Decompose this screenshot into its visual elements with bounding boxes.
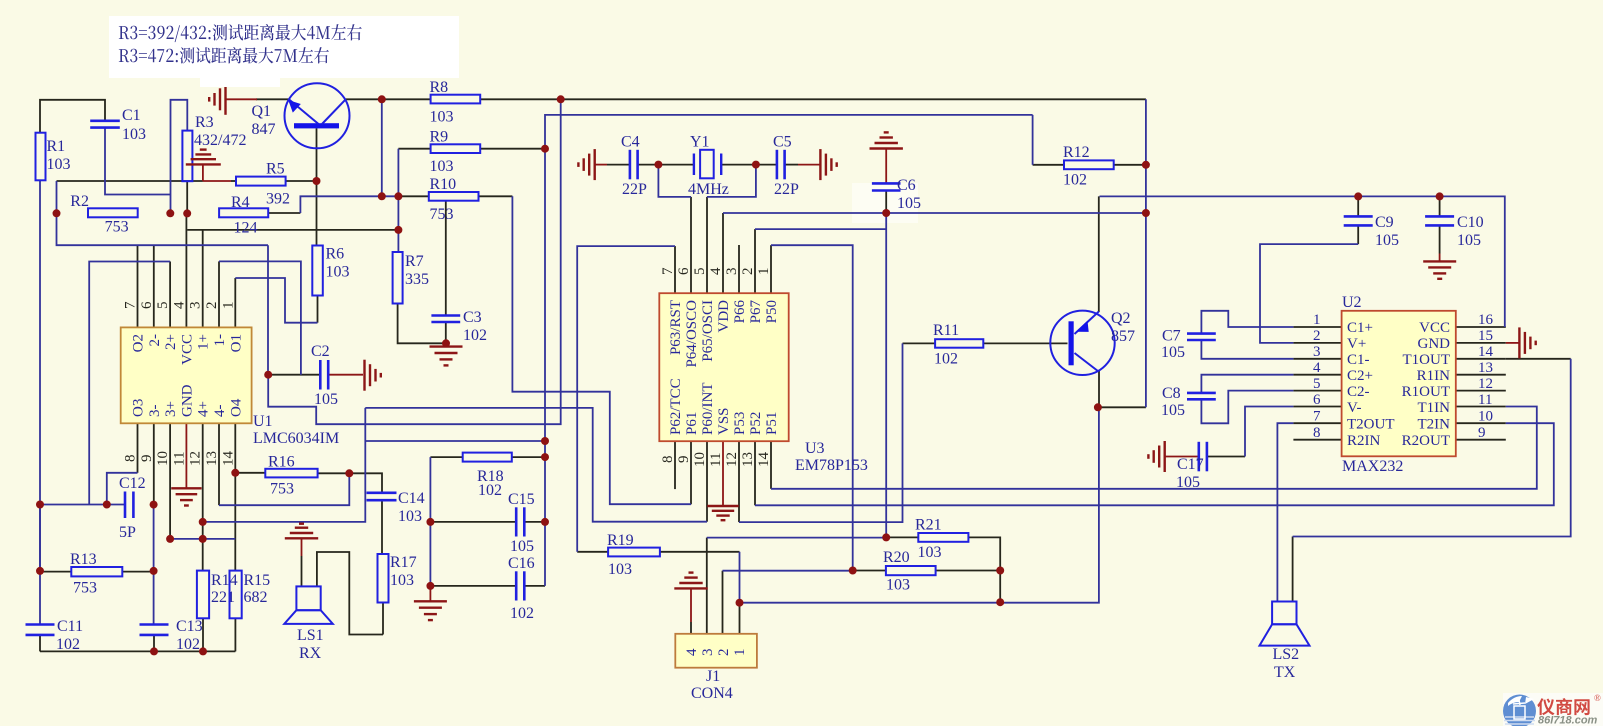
wire R11 left lead	[903, 342, 936, 344]
svg-text:C14: C14	[398, 490, 425, 507]
connector J1 CON4	[675, 634, 757, 702]
wire J1 pin4 stub	[690, 622, 692, 636]
annotation line 1	[119, 24, 362, 42]
svg-text:C16: C16	[508, 555, 535, 572]
svg-text:335: 335	[405, 271, 429, 288]
wire y537.6 rail	[707, 537, 886, 539]
svg-text:C17: C17	[1177, 456, 1204, 473]
svg-text:R15: R15	[244, 572, 271, 589]
svg-text:105: 105	[510, 538, 534, 555]
wire y196 riser to top rail	[381, 99, 383, 196]
wire R4 to y196 rail	[300, 196, 398, 213]
node y229 x398	[394, 226, 402, 234]
wire R19 right lead	[660, 551, 740, 553]
speaker LS2	[1260, 602, 1310, 682]
svg-text:R4: R4	[231, 194, 250, 211]
node Q2 emitter	[1094, 403, 1102, 411]
transistor Q1	[252, 83, 350, 148]
wire red gnd stem R3	[202, 164, 204, 181]
svg-text:8: 8	[1313, 425, 1321, 441]
node R13 left	[36, 567, 44, 575]
svg-text:10: 10	[155, 451, 171, 466]
svg-text:R16: R16	[268, 454, 295, 471]
wire VDD bus y213	[723, 212, 1146, 214]
svg-text:753: 753	[73, 580, 97, 597]
svg-text:753: 753	[430, 206, 454, 223]
wire top rail Q1 to R8	[256, 98, 289, 100]
wire C8 to pin4	[1201, 375, 1293, 393]
svg-text:P53: P53	[732, 412, 748, 435]
svg-text:4: 4	[708, 267, 724, 275]
svg-text:12: 12	[724, 452, 740, 467]
svg-text:392: 392	[266, 191, 290, 208]
svg-text:P65/OSCI: P65/OSCI	[700, 300, 716, 362]
wire C14 bottom to R17	[381, 501, 383, 554]
svg-text:9: 9	[676, 456, 692, 464]
svg-text:VCC: VCC	[179, 334, 195, 365]
wire R19 left lead	[577, 551, 608, 553]
wire bottom bus y651	[40, 650, 235, 652]
svg-text:R7: R7	[405, 253, 424, 270]
wire R10 right lead	[479, 195, 513, 197]
svg-text:R8: R8	[430, 79, 449, 96]
svg-text:5: 5	[155, 302, 171, 310]
wire U1 pin stubs bottom	[137, 423, 139, 473]
svg-text:R9: R9	[430, 129, 449, 146]
resistor R17	[378, 554, 417, 603]
wire R10 to U3 pin9	[512, 196, 691, 504]
svg-text:R19: R19	[607, 532, 634, 549]
wire LS1 right loop	[317, 552, 383, 635]
svg-text:3: 3	[700, 649, 716, 657]
capacitor C1	[90, 107, 146, 143]
svg-text:105: 105	[1161, 402, 1185, 419]
node R12 right	[1142, 161, 1150, 169]
svg-text:5P: 5P	[119, 524, 136, 541]
wire J1 pin2 stub	[722, 571, 724, 637]
svg-text:753: 753	[270, 481, 294, 498]
resistor R3	[182, 114, 246, 181]
svg-text:P62/TCC: P62/TCC	[668, 378, 684, 435]
svg-text:U1: U1	[253, 413, 273, 430]
svg-text:6: 6	[676, 267, 692, 275]
node R14 bottom	[199, 647, 207, 655]
wire R1 long column	[39, 180, 41, 504]
wire U1 pin1 O1 to R6	[235, 278, 317, 323]
svg-text:P66: P66	[732, 300, 748, 324]
svg-text:R2: R2	[70, 193, 89, 210]
wire red R18 gnd stem	[429, 586, 431, 601]
wire C10 leads	[1439, 196, 1441, 216]
wire C9 to V+	[1260, 244, 1358, 343]
resistor R1	[36, 133, 71, 181]
svg-text:T2IN: T2IN	[1418, 417, 1451, 433]
node C3 ground	[442, 339, 450, 347]
svg-text:T1OUT: T1OUT	[1403, 352, 1451, 368]
GROUNDS	[171, 84, 1536, 620]
wire R18 right lead	[512, 456, 545, 458]
node top rail x560	[557, 95, 565, 103]
resistor R21	[915, 517, 968, 562]
wire red U2 pin15 gnd	[1506, 342, 1520, 344]
capacitor C6	[872, 177, 921, 212]
resistor R7	[393, 252, 429, 304]
svg-text:103: 103	[918, 544, 942, 561]
node R13 right	[150, 567, 158, 575]
svg-text:5: 5	[692, 268, 708, 276]
wire R15 bottom lead	[234, 618, 236, 651]
node R4 left	[183, 209, 191, 217]
ground below R3	[186, 150, 221, 165]
node R9 right	[541, 145, 549, 153]
resistor R16	[265, 454, 317, 498]
svg-text:4+: 4+	[196, 401, 212, 417]
svg-text:V+: V+	[1347, 336, 1366, 352]
svg-text:16: 16	[1478, 312, 1494, 328]
svg-text:Y1: Y1	[690, 134, 710, 151]
svg-text:4: 4	[171, 301, 187, 309]
svg-text:®: ®	[1594, 693, 1601, 703]
node VDD y537	[882, 533, 890, 541]
svg-text:R3: R3	[195, 114, 214, 131]
wire crystal rail C4-Y1	[607, 164, 629, 166]
svg-text:R10: R10	[430, 176, 457, 193]
resistor R20	[883, 549, 936, 594]
svg-text:105: 105	[314, 391, 338, 408]
svg-text:P64/OSCO: P64/OSCO	[684, 300, 700, 368]
svg-text:TX: TX	[1274, 664, 1296, 681]
wire R14 bottom lead	[202, 618, 204, 651]
wire LS2 right lead	[1292, 537, 1294, 602]
capacitor C7	[1161, 328, 1216, 362]
wire V- to C17	[1245, 407, 1293, 457]
svg-text:MAX232: MAX232	[1342, 458, 1403, 475]
wire x545 spine	[545, 115, 1033, 586]
svg-text:C9: C9	[1375, 214, 1394, 231]
svg-text:R1: R1	[47, 138, 66, 155]
svg-text:P51: P51	[764, 412, 780, 435]
svg-text:2+: 2+	[163, 334, 179, 350]
svg-text:102: 102	[934, 351, 958, 368]
svg-text:R12: R12	[1063, 144, 1090, 161]
svg-text:3: 3	[1313, 344, 1321, 360]
wire R21 right lead	[968, 537, 1000, 602]
svg-text:R2OUT: R2OUT	[1402, 433, 1450, 449]
svg-text:LMC6034IM: LMC6034IM	[253, 430, 339, 447]
svg-text:14: 14	[1478, 344, 1494, 360]
svg-text:2: 2	[204, 302, 220, 310]
node R2 left	[53, 209, 61, 217]
wire U1 pin stubs top	[137, 246, 139, 328]
wire C7 to pin3	[1201, 340, 1293, 359]
wire C1 bottom route	[105, 128, 171, 195]
svg-text:3: 3	[188, 302, 204, 310]
ground right of U2 pin15	[1519, 327, 1535, 358]
svg-text:6: 6	[139, 301, 155, 309]
wire R12 riser	[1032, 115, 1034, 165]
svg-text:432/472: 432/472	[194, 132, 246, 149]
wire R19 drop to J1 pin1 node	[739, 552, 741, 603]
wire x886 spine	[885, 213, 887, 538]
svg-text:9: 9	[139, 455, 155, 463]
ground above C6	[870, 132, 903, 148]
svg-text:7: 7	[123, 301, 139, 309]
wire red C4 gnd lead	[595, 164, 607, 166]
wire Q2 node to x1146	[1098, 406, 1146, 408]
node R20 left	[849, 567, 857, 575]
capacitor C15	[508, 491, 535, 555]
wire U1 pin5 net to C12 rail	[89, 262, 170, 505]
node R16 left	[231, 469, 239, 477]
node R1 col y504	[36, 501, 44, 509]
svg-text:15: 15	[1478, 328, 1493, 344]
wire C16 leads	[430, 585, 516, 587]
wire red U3 pin11 gnd	[722, 441, 724, 506]
capacitor C8	[1161, 385, 1216, 419]
svg-text:12: 12	[1478, 376, 1493, 392]
wire J1 pin1 stub	[739, 603, 741, 637]
wire R12 right lead	[1114, 164, 1146, 166]
svg-text:C11: C11	[57, 618, 83, 635]
wire C3 top lead	[445, 202, 447, 316]
node C12 right	[150, 501, 158, 509]
svg-text:VDD: VDD	[716, 300, 732, 333]
wire C9 leads	[1357, 196, 1359, 216]
svg-text:103: 103	[608, 561, 632, 578]
svg-text:C12: C12	[119, 475, 146, 492]
ground right of C5	[820, 149, 836, 180]
wire U1 pin4 VCC riser	[185, 213, 187, 327]
svg-text:5: 5	[1313, 376, 1321, 392]
wire R3 bottom lead	[186, 181, 188, 213]
resistor R18	[463, 453, 512, 499]
capacitor C9	[1344, 214, 1399, 249]
wire U3 pin stubs bottom	[674, 441, 676, 489]
svg-text:102: 102	[1063, 172, 1087, 189]
wire P53 route to R11	[739, 343, 903, 522]
svg-text:13: 13	[740, 452, 756, 467]
svg-text:GND: GND	[1418, 336, 1451, 352]
wire J1 pin1 rail y602	[740, 407, 1099, 602]
svg-text:14: 14	[220, 451, 236, 467]
svg-text:22P: 22P	[622, 181, 647, 198]
wire U3 pin stubs top	[674, 246, 676, 293]
svg-text:C6: C6	[897, 177, 916, 194]
ground right of C2	[365, 360, 381, 391]
wire RST route	[577, 246, 675, 552]
microcontroller U3 EM78P153	[659, 267, 868, 474]
wire red y181 segment	[203, 180, 231, 182]
op-amp U1 LMC6034IM	[121, 301, 340, 466]
node y602 x1000	[996, 598, 1004, 606]
svg-text:C8: C8	[1162, 385, 1181, 402]
svg-text:105: 105	[1375, 232, 1399, 249]
node R20 right	[996, 567, 1004, 575]
svg-text:C2-: C2-	[1347, 384, 1370, 400]
wire red C2 gnd lead	[329, 374, 364, 376]
ground left of C17	[1148, 441, 1164, 472]
svg-text:Q1: Q1	[252, 103, 272, 120]
wire J1 pin2 rail	[723, 570, 853, 572]
wire C14 top column	[349, 473, 382, 492]
wire node VCC y181 rail	[57, 180, 203, 182]
svg-text:11: 11	[1478, 392, 1492, 408]
svg-text:4: 4	[684, 648, 700, 656]
wire top rail Q1 right	[346, 98, 431, 100]
wire LS2 to T1OUT	[1293, 359, 1571, 537]
svg-text:4: 4	[1313, 360, 1321, 376]
svg-text:1+: 1+	[196, 334, 212, 350]
svg-text:P50: P50	[764, 300, 780, 323]
resistor R5	[236, 161, 290, 208]
svg-text:R5: R5	[266, 161, 285, 178]
wire black LS1 stem lower	[301, 556, 303, 586]
ground left of Q1	[209, 84, 225, 115]
svg-text:2: 2	[716, 649, 732, 657]
node R18 right	[541, 453, 549, 461]
svg-text:103: 103	[122, 126, 146, 143]
svg-text:9: 9	[1478, 425, 1486, 441]
resistor R14	[197, 571, 238, 619]
svg-text:R1OUT: R1OUT	[1402, 384, 1450, 400]
node C2 left	[264, 371, 272, 379]
svg-text:103: 103	[47, 156, 71, 173]
svg-text:P52: P52	[748, 412, 764, 435]
svg-text:R2IN: R2IN	[1347, 433, 1381, 449]
ground below C10	[1423, 261, 1456, 278]
svg-text:1: 1	[1313, 312, 1321, 328]
svg-text:C1: C1	[122, 107, 141, 124]
svg-text:R14: R14	[211, 572, 238, 589]
white patch behind annotation	[109, 16, 459, 78]
svg-text:102: 102	[176, 636, 200, 653]
svg-text:C1+: C1+	[1347, 320, 1373, 336]
wire U1 pin7/6 net rail	[57, 213, 269, 245]
svg-text:8: 8	[123, 455, 139, 463]
wire red LS1 gnd stem	[301, 538, 303, 556]
svg-text:GND: GND	[179, 384, 195, 417]
resistor R4	[219, 194, 268, 237]
svg-text:2-: 2-	[147, 334, 163, 347]
annotation line 2	[119, 47, 329, 63]
svg-text:4-: 4-	[212, 405, 228, 418]
svg-text:R17: R17	[390, 554, 417, 571]
wire y441 link	[365, 440, 545, 442]
wire R3 top route	[171, 100, 188, 214]
svg-text:U3: U3	[805, 440, 825, 457]
svg-text:R21: R21	[915, 517, 942, 534]
svg-text:2: 2	[1313, 328, 1321, 344]
svg-text:P67: P67	[748, 300, 764, 324]
wire R11 right lead	[983, 342, 1067, 344]
svg-text:105: 105	[1161, 344, 1185, 361]
wire red gnd lead Q1	[226, 98, 257, 100]
node R16 right	[345, 469, 353, 477]
node C13 bottom	[150, 647, 158, 655]
wire top net R1-C1	[40, 100, 105, 133]
svg-text:J1: J1	[706, 668, 720, 685]
wire P50 route	[771, 245, 853, 570]
wire VCC rail y196	[1100, 196, 1505, 327]
svg-text:7: 7	[660, 267, 676, 275]
wire x268 drop to C2 node	[267, 245, 269, 375]
capacitor C2	[311, 343, 338, 408]
resistor R10	[429, 176, 479, 223]
svg-text:C1-: C1-	[1347, 352, 1370, 368]
wire C6 bottom lead	[885, 191, 887, 213]
node x1146 y213	[1142, 209, 1150, 217]
svg-text:2: 2	[740, 268, 756, 276]
wire Q1 base to R6	[316, 128, 318, 245]
resistor R12	[1063, 144, 1114, 189]
ground above LS1	[285, 524, 318, 539]
wire U1 pin8 route	[107, 473, 138, 505]
svg-text:C5: C5	[773, 134, 792, 151]
svg-text:103: 103	[886, 577, 910, 594]
ground left of C4	[578, 149, 594, 180]
node C4-Y1	[654, 161, 662, 169]
svg-text:847: 847	[252, 121, 276, 138]
capacitor C11	[26, 618, 84, 653]
svg-text:C2: C2	[311, 343, 330, 360]
wire y229.9 rail R3-R7	[187, 229, 398, 231]
svg-text:O1: O1	[228, 334, 244, 352]
wire R6 bottom lead	[317, 296, 319, 323]
svg-text:682: 682	[244, 589, 268, 606]
svg-text:P63/RST: P63/RST	[668, 300, 684, 355]
node y196 x381	[378, 192, 386, 200]
node pin8 y504	[103, 501, 111, 509]
ground above J1 pin4	[674, 573, 707, 589]
node R18 gnd top	[426, 518, 434, 526]
svg-text:6: 6	[1313, 392, 1321, 408]
resistor R9	[430, 129, 481, 176]
node pin12 y521	[199, 518, 207, 526]
wire C12-C13 column	[153, 505, 155, 624]
svg-text:1-: 1-	[212, 334, 228, 347]
svg-text:C13: C13	[176, 618, 203, 635]
svg-text:102: 102	[463, 327, 487, 344]
svg-text:O2: O2	[131, 334, 147, 352]
wire Q2 collector riser	[1098, 196, 1100, 312]
svg-text:C15: C15	[508, 491, 535, 508]
wire red C5 gnd lead	[798, 164, 820, 166]
svg-text:857: 857	[1111, 328, 1135, 345]
node J1 pin1	[736, 599, 744, 607]
svg-text:105: 105	[1457, 232, 1481, 249]
svg-text:P60/INT: P60/INT	[700, 383, 716, 436]
svg-text:3: 3	[724, 268, 740, 276]
node C10 top	[1436, 192, 1444, 200]
wire O1 staircase	[268, 99, 561, 424]
svg-text:7: 7	[1313, 409, 1321, 425]
wire red C6 gnd stem	[885, 149, 887, 183]
wire R9 right lead	[480, 148, 545, 150]
wire pin14 T1OUT extension	[1506, 358, 1571, 360]
svg-text:VCC: VCC	[1419, 320, 1450, 336]
wire T2OUT to LS2	[1277, 423, 1293, 601]
wire R21 left lead	[886, 536, 918, 538]
svg-text:Q2: Q2	[1111, 310, 1131, 327]
wire P67 rail	[755, 228, 886, 230]
wire R12 left lead	[1033, 164, 1064, 166]
svg-text:1: 1	[220, 302, 236, 310]
wire R16 left lead	[235, 472, 265, 474]
capacitor C4	[621, 134, 647, 199]
wire C13 bottom lead	[153, 635, 155, 651]
wire red U1 pin11 gnd	[185, 423, 187, 488]
node C9 top	[1354, 192, 1362, 200]
